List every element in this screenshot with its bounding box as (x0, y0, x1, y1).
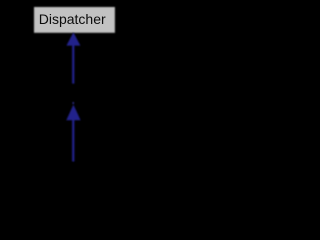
arrowhead 2 (66, 105, 80, 121)
wire shaft 2 (72, 120, 74, 162)
node Dispatcher (class box) (34, 7, 115, 33)
arrowhead 1 (66, 32, 80, 45)
wire shaft 1 (72, 45, 74, 84)
edge stub above arrowhead 2 (73, 102, 74, 104)
inheritance arrow 2 (lower edge) (66, 102, 80, 161)
svg-text:Dispatcher: Dispatcher (39, 11, 106, 27)
inheritance arrow 1 (upper edge into Dispatcher) (66, 32, 80, 83)
